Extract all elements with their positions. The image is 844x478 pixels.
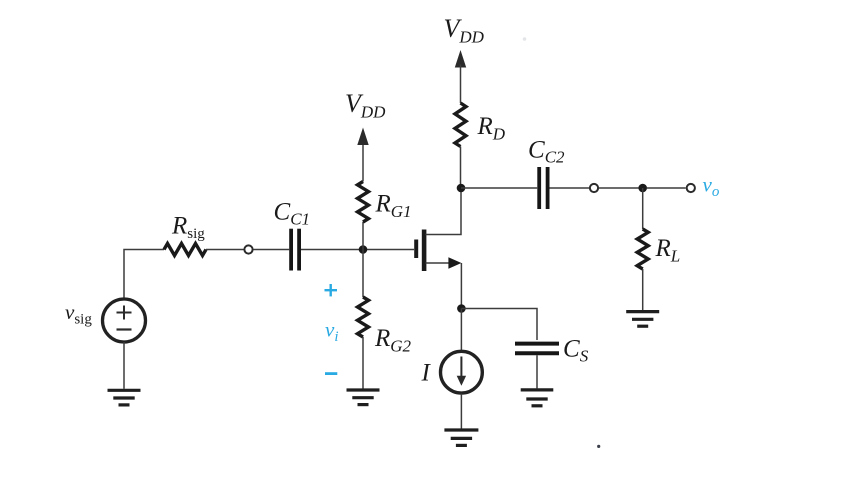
V_DD supply arrow (left) xyxy=(357,128,368,146)
voltage source v_sig circle xyxy=(103,299,146,342)
wire C_S to ground xyxy=(536,355,538,388)
junction node at gate (R_G1/R_G2 divider) xyxy=(359,245,368,254)
wire Q1 drain lead xyxy=(426,188,462,235)
wire source node to current source xyxy=(460,309,462,352)
wire v_sig top lead up and right to R_sig xyxy=(124,250,164,299)
wire drain node to C_C2 xyxy=(461,187,537,189)
Q1 source arrowhead xyxy=(448,257,461,269)
stray speck (scan artifact, bottom right) xyxy=(597,445,600,448)
wire v_sig bottom lead to ground xyxy=(123,342,125,389)
current source arrow shaft xyxy=(460,357,462,378)
wire V_DD arrow to R_D xyxy=(460,65,462,104)
resistor R_G1 xyxy=(358,182,369,223)
wire R_L node down to R_L xyxy=(642,188,644,229)
wire input node to C_C1 xyxy=(253,249,289,251)
capacitor C_S xyxy=(515,344,559,354)
wire R_G1 up to V_DD arrow xyxy=(362,142,364,182)
open node (after C_C2) xyxy=(590,184,598,192)
label - (v_i polarity) xyxy=(325,372,337,375)
v_sig minus mark xyxy=(117,328,132,330)
wire Q1 source lead xyxy=(426,262,451,264)
wire Q1 source down to source node xyxy=(460,263,462,309)
ground (below v_sig) xyxy=(108,390,141,405)
open node (input terminal after R_sig) xyxy=(244,245,252,253)
resistor R_D xyxy=(455,103,466,147)
wire R_L node to output terminal xyxy=(647,187,686,189)
current source I circle xyxy=(441,351,483,393)
capacitor C_C1 xyxy=(291,229,299,271)
current source arrowhead xyxy=(457,376,466,386)
wire current source to ground xyxy=(460,394,462,429)
wire R_L to ground xyxy=(642,269,644,311)
wire R_sig to input open node xyxy=(206,249,244,251)
junction node at source xyxy=(457,304,466,313)
resistor R_sig xyxy=(164,244,206,256)
ground (below current source) xyxy=(444,430,478,445)
ground (below R_G2) xyxy=(347,390,380,405)
transistor Q1 channel bar xyxy=(422,230,427,272)
label + (v_i polarity) xyxy=(325,284,338,296)
wire C_C1 to MOSFET gate xyxy=(301,249,414,251)
wire gate node down to R_G2 xyxy=(362,250,364,298)
resistor R_L xyxy=(637,229,648,269)
wire R_D down to drain node xyxy=(460,147,462,189)
v_sig plus mark xyxy=(117,306,132,320)
wire R_G2 to ground xyxy=(362,337,364,389)
V_DD supply arrow (right) xyxy=(455,50,466,68)
junction node at R_L xyxy=(638,184,647,193)
ground (below R_L) xyxy=(626,312,659,327)
capacitor C_C2 xyxy=(539,167,547,209)
wire open node to R_L node xyxy=(599,187,643,189)
wire gate node up to R_G1 xyxy=(362,222,364,250)
wire C_C2 to open node xyxy=(550,187,590,189)
stray speck (scan artifact, top middle) xyxy=(523,37,527,41)
ground (below C_S) xyxy=(521,390,554,406)
output terminal open node xyxy=(687,184,695,192)
transistor Q1 gate bar xyxy=(414,240,418,259)
junction node at drain xyxy=(457,184,466,193)
wire source node right and down to C_S xyxy=(461,309,537,341)
resistor R_G2 xyxy=(358,297,369,337)
